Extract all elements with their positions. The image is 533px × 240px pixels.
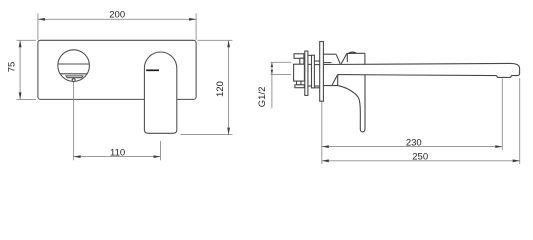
svg-text:110: 110 xyxy=(110,148,125,159)
svg-text:200: 200 xyxy=(109,10,125,21)
svg-text:G1/2: G1/2 xyxy=(257,87,268,108)
svg-text:75: 75 xyxy=(6,62,17,73)
svg-text:250: 250 xyxy=(412,152,428,163)
svg-text:120: 120 xyxy=(215,81,226,97)
svg-text:230: 230 xyxy=(406,137,422,148)
